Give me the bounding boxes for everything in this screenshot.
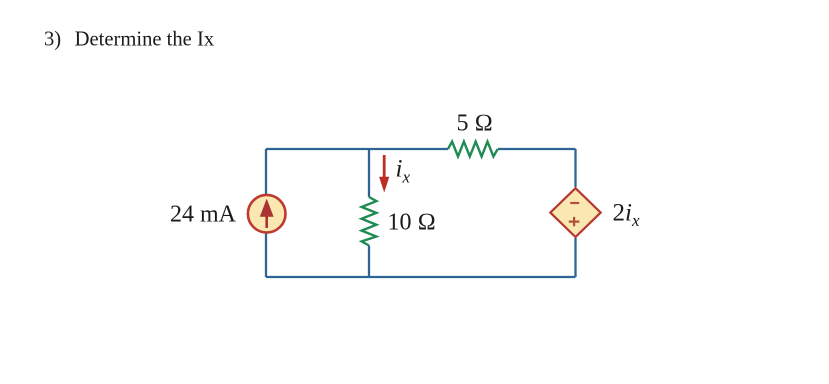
svg-text:ix: ix: [396, 156, 411, 187]
svg-text:5 Ω: 5 Ω: [457, 111, 493, 137]
svg-text:Determine the Ix: Determine the Ix: [75, 28, 215, 50]
svg-text:10 Ω: 10 Ω: [388, 209, 436, 235]
svg-text:2ix: 2ix: [613, 200, 640, 231]
svg-text:3): 3): [44, 28, 61, 50]
svg-text:24 mA: 24 mA: [170, 201, 237, 227]
